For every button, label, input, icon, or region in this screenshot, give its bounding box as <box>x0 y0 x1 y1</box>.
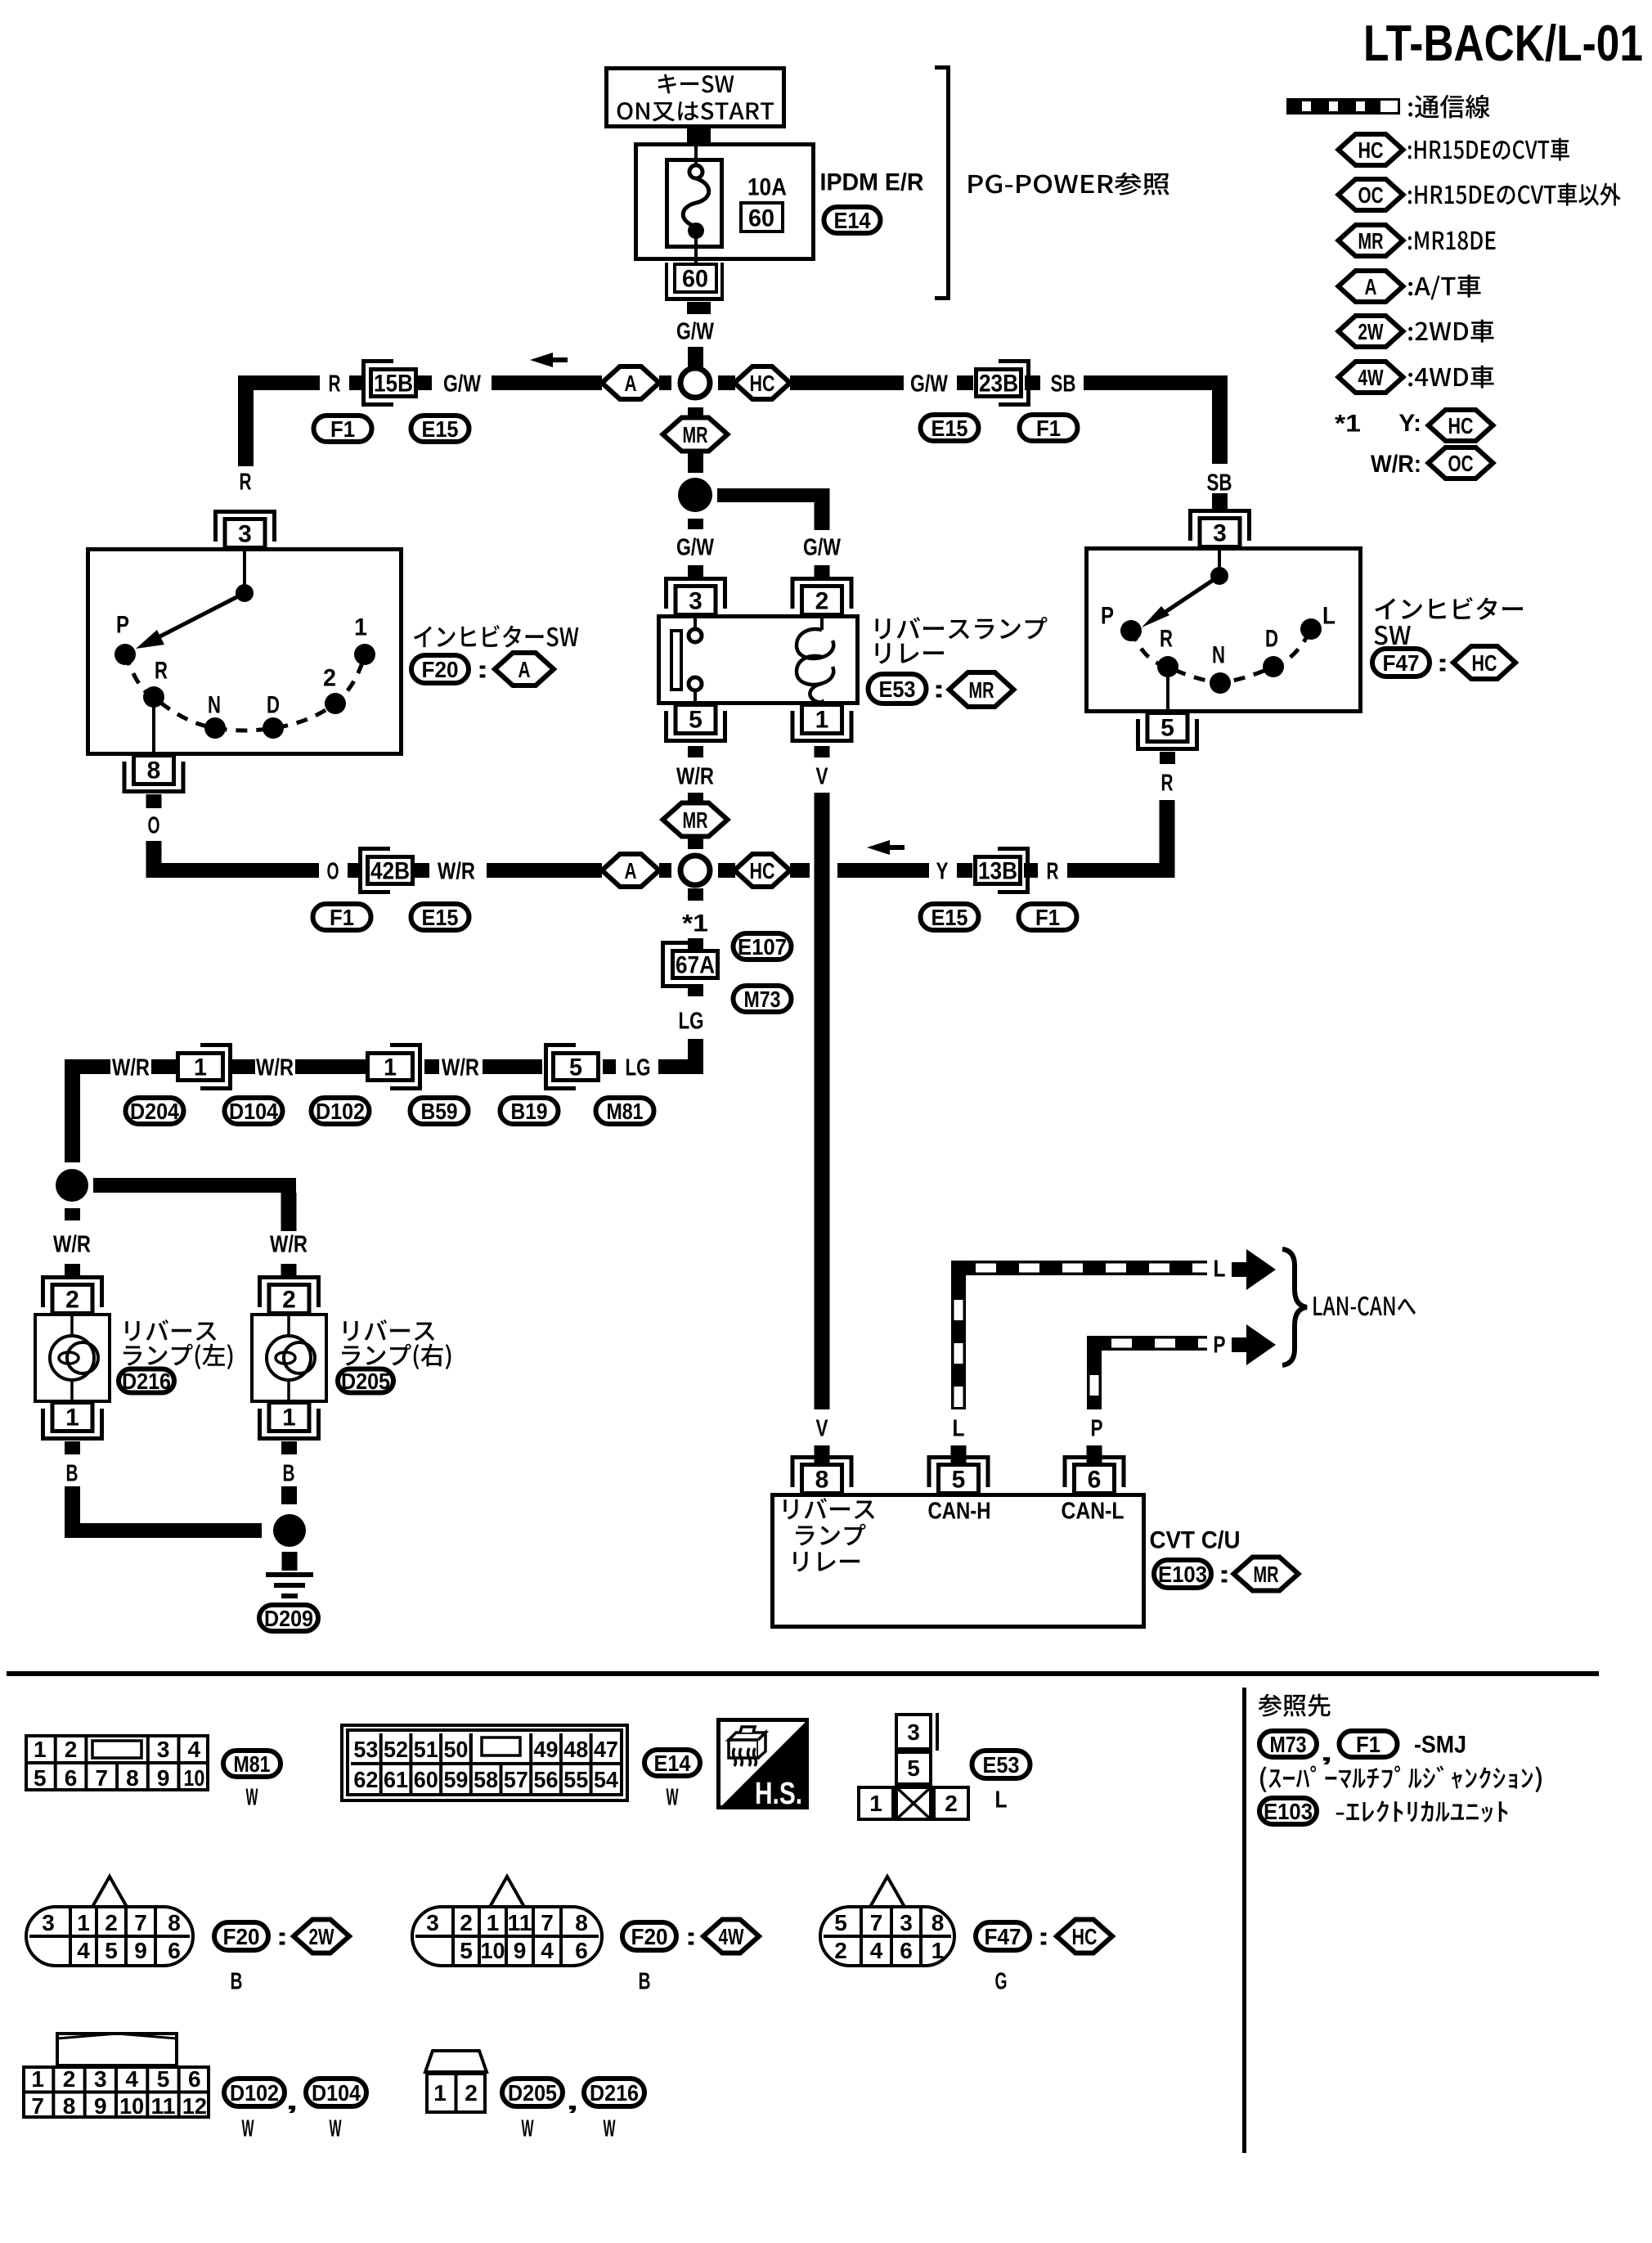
svg-text:1: 1 <box>34 1737 47 1762</box>
svg-text:P: P <box>1214 1332 1226 1358</box>
svg-text:W: W <box>242 2115 254 2142</box>
hexagon MR for relay <box>949 672 1014 707</box>
position dot 2 left SW <box>325 693 346 714</box>
svg-text:R: R <box>240 469 252 495</box>
svg-text:F1: F1 <box>330 905 354 930</box>
svg-text:F20: F20 <box>631 1924 668 1949</box>
legend hexagon OC <box>1339 179 1403 210</box>
connector F1 oval top left <box>314 416 372 442</box>
svg-text:MR: MR <box>683 422 708 447</box>
connector pinout E53 <box>896 1715 931 1749</box>
svg-text:54: 54 <box>594 1767 618 1792</box>
svg-text:5: 5 <box>460 1938 473 1963</box>
svg-text:61: 61 <box>384 1767 408 1792</box>
position dot R right SW <box>1157 656 1178 677</box>
svg-text:G/W: G/W <box>676 318 714 344</box>
svg-text:6: 6 <box>168 1938 181 1963</box>
connector E15 oval top left <box>411 416 469 442</box>
position dot N left SW <box>204 717 226 739</box>
svg-text:9: 9 <box>514 1938 527 1963</box>
connector 23B <box>1026 359 1030 407</box>
svg-text:IPDM E/R: IPDM E/R <box>820 169 924 196</box>
connector E14 oval <box>824 207 881 233</box>
svg-text:4W: 4W <box>1358 365 1384 390</box>
wire R dot to pin 8 left SW <box>152 708 155 756</box>
svg-text:9: 9 <box>134 1938 147 1963</box>
svg-text:R: R <box>1047 858 1059 884</box>
connector E103 oval <box>1154 1560 1211 1588</box>
label リバースランプ(右) <box>343 1319 434 1341</box>
svg-text:D104: D104 <box>312 2080 361 2106</box>
connector E15 oval lower left <box>411 904 469 930</box>
svg-text:4: 4 <box>125 2066 138 2092</box>
svg-text:W/R:: W/R: <box>1371 451 1421 478</box>
svg-text:F1: F1 <box>1356 1732 1380 1757</box>
position dot 1 left SW <box>354 644 375 665</box>
svg-text:9: 9 <box>94 2093 107 2119</box>
svg-text:R: R <box>1160 626 1173 653</box>
svg-text:12: 12 <box>182 2093 207 2119</box>
svg-text:5: 5 <box>1160 715 1174 742</box>
position dot P left SW <box>114 644 136 665</box>
hexagon MR for CVT <box>1234 1558 1299 1591</box>
svg-text:D216: D216 <box>122 1369 171 1394</box>
legend label MR18DE <box>1408 231 1496 250</box>
svg-text:1: 1 <box>282 1405 296 1432</box>
connector pin 1 relay <box>791 739 854 743</box>
svg-text:50: 50 <box>443 1737 468 1762</box>
connector E53 oval pinout <box>972 1751 1030 1778</box>
connector B19 oval <box>501 1098 559 1124</box>
svg-text:,: , <box>1320 1740 1333 1767</box>
svg-text:B19: B19 <box>511 1099 548 1124</box>
connector pin 3 right SW <box>1188 509 1251 513</box>
arrow direction left lower <box>867 840 890 855</box>
svg-text:E15: E15 <box>931 416 968 441</box>
connector D205 oval <box>338 1369 393 1393</box>
svg-text:-SMJ: -SMJ <box>1414 1732 1466 1759</box>
connector M81 oval <box>596 1098 654 1124</box>
svg-text:E107: E107 <box>738 934 787 960</box>
hexagon MR below top bus <box>663 418 728 452</box>
svg-text:MR: MR <box>1254 1562 1279 1587</box>
junction circle lower bus <box>680 856 710 885</box>
svg-text:1: 1 <box>31 2066 44 2092</box>
svg-text:E103: E103 <box>1264 1799 1313 1824</box>
svg-text:M81: M81 <box>607 1099 644 1124</box>
svg-text:W: W <box>604 2115 616 2142</box>
svg-text:OC: OC <box>1448 451 1474 476</box>
svg-text:1: 1 <box>354 614 367 641</box>
svg-text:E15: E15 <box>422 905 459 930</box>
switch arrow to P left SW <box>147 593 245 643</box>
svg-text:O: O <box>327 858 339 884</box>
svg-text:P: P <box>1091 1415 1103 1441</box>
svg-text:F47: F47 <box>985 1924 1021 1949</box>
label 参照先 <box>1258 1694 1330 1717</box>
svg-text:3: 3 <box>42 1910 55 1935</box>
wire W/R chain right segment <box>483 1059 542 1074</box>
legend label 2WD車 <box>1408 320 1493 343</box>
svg-text:F1: F1 <box>1035 905 1060 930</box>
connector pin 2 left lamp <box>41 1275 104 1279</box>
svg-text:Y:: Y: <box>1398 410 1421 437</box>
svg-text:A: A <box>625 858 637 883</box>
wire bus top right segment <box>790 375 904 390</box>
hexagon MR on W/R wire <box>663 803 728 837</box>
svg-text:M81: M81 <box>234 1751 271 1777</box>
svg-text:5: 5 <box>157 2066 170 2092</box>
svg-text:60: 60 <box>682 266 708 293</box>
svg-text:7: 7 <box>541 1910 554 1935</box>
svg-text:4: 4 <box>188 1737 201 1762</box>
svg-text:5: 5 <box>834 1910 847 1935</box>
svg-text:MR: MR <box>969 677 994 703</box>
connector pin 1 left lamp <box>41 1436 104 1441</box>
connector F20 oval 4W <box>622 1922 676 1950</box>
wire LG horizontal corner <box>658 1059 703 1074</box>
position dot P right SW <box>1120 620 1142 641</box>
svg-text:P: P <box>1101 603 1114 630</box>
connector F1 oval top right <box>1020 415 1078 441</box>
connector D102 oval pinout <box>224 2079 285 2106</box>
svg-text:D: D <box>1265 626 1278 653</box>
svg-text:9: 9 <box>157 1765 170 1791</box>
wire below lower junction to 67A <box>688 888 703 901</box>
wire V relay pin1 down <box>815 746 830 757</box>
label PG-POWER参照 <box>968 173 1169 196</box>
connector pinout F20 2W <box>26 1907 193 1966</box>
connector pin 5 right SW <box>1136 747 1199 751</box>
arrow to LAN-CAN P <box>1246 1324 1276 1365</box>
svg-text:1: 1 <box>487 1910 500 1935</box>
arrow to LAN-CAN L <box>1246 1249 1276 1290</box>
svg-text:H.S.: H.S. <box>755 1777 802 1811</box>
svg-text:HC: HC <box>1448 413 1474 438</box>
svg-text:7: 7 <box>134 1910 147 1935</box>
connector 5 SMJ M81 <box>544 1043 548 1090</box>
svg-text:5: 5 <box>105 1938 118 1963</box>
connector D102 oval <box>312 1098 370 1124</box>
svg-text:49: 49 <box>534 1737 559 1762</box>
svg-text:2: 2 <box>945 1791 958 1816</box>
svg-text:8: 8 <box>147 757 161 784</box>
svg-text:4: 4 <box>870 1938 883 1963</box>
label LAN-CANへ <box>1313 1297 1416 1316</box>
svg-text:7: 7 <box>870 1910 883 1935</box>
svg-text:F47: F47 <box>1383 650 1420 676</box>
hexagon HC on lower bus <box>734 854 790 887</box>
wire R right SW down to bus <box>1160 800 1175 878</box>
svg-text:D104: D104 <box>229 1099 278 1124</box>
svg-text:W: W <box>667 1784 679 1810</box>
connector 60 below IPDM <box>665 297 724 301</box>
block IPDM E/R E14 <box>636 145 814 259</box>
svg-text:3: 3 <box>238 521 252 548</box>
legend hexagon 4W <box>1339 362 1403 393</box>
svg-text:M73: M73 <box>744 987 781 1012</box>
svg-text:8: 8 <box>815 1467 829 1494</box>
wire key switch to IPDM <box>687 128 711 142</box>
svg-text:2: 2 <box>63 2066 76 2092</box>
svg-text:M73: M73 <box>1270 1732 1307 1757</box>
svg-text:2: 2 <box>834 1938 847 1963</box>
svg-text:1: 1 <box>815 707 829 734</box>
label スーパーマルチプルジャンクション <box>1260 1765 1542 1792</box>
svg-text:6: 6 <box>1088 1467 1102 1494</box>
svg-text:R: R <box>329 371 341 397</box>
icon H.S. <box>720 1720 807 1808</box>
svg-text:62: 62 <box>353 1767 378 1792</box>
svg-text:23B: 23B <box>979 371 1018 398</box>
svg-text:3: 3 <box>1213 520 1227 547</box>
svg-text:G/W: G/W <box>443 371 481 397</box>
svg-text:MR: MR <box>683 807 708 833</box>
hexagon 4W pinout <box>703 1920 759 1953</box>
dashed arc left SW <box>125 654 365 730</box>
svg-text:56: 56 <box>534 1767 559 1792</box>
position dot L right SW <box>1300 618 1322 640</box>
svg-text:3: 3 <box>94 2066 107 2092</box>
wire W/R relay pin5 down <box>688 746 703 757</box>
legend label 通信線 <box>1408 95 1489 119</box>
svg-text:LG: LG <box>626 1054 651 1081</box>
wire B left lamp to ground <box>65 1486 80 1538</box>
connector pinout D102 D104 <box>57 2034 177 2065</box>
svg-text:B: B <box>66 1460 79 1486</box>
connector pin 8 CVT <box>791 1455 854 1459</box>
svg-text:1: 1 <box>77 1910 90 1935</box>
label リバースランプリレー relay <box>875 617 1047 640</box>
connector E107 oval <box>734 933 792 960</box>
comm line CAN-H L <box>951 1275 966 1409</box>
connector pin 5 CVT <box>927 1455 990 1459</box>
svg-text:OC: OC <box>1358 182 1384 208</box>
svg-text:G/W: G/W <box>676 534 714 560</box>
wire bus top left segment <box>238 375 320 390</box>
legend comm-line sample <box>1286 98 1378 115</box>
svg-text:Y: Y <box>936 858 949 884</box>
svg-text:B: B <box>283 1460 295 1486</box>
label リバースランプリレー in CVT <box>783 1498 874 1519</box>
svg-text:L: L <box>953 1415 965 1441</box>
svg-text::: : <box>276 1924 289 1951</box>
svg-text:6: 6 <box>900 1938 913 1963</box>
svg-text:E53: E53 <box>879 676 916 702</box>
svg-text:10: 10 <box>119 2093 144 2119</box>
arrow direction left <box>530 353 553 367</box>
svg-text:3: 3 <box>689 588 703 615</box>
connector pinout M81 <box>26 1736 208 1790</box>
svg-text:1: 1 <box>194 1054 207 1081</box>
svg-text:6: 6 <box>188 2066 201 2092</box>
svg-text::: : <box>1436 650 1449 677</box>
svg-text:V: V <box>816 1415 829 1441</box>
connector D104 oval <box>225 1098 283 1124</box>
block reverse lamp left D216 <box>35 1315 110 1401</box>
connector F20 oval <box>411 655 469 683</box>
svg-text:G/W: G/W <box>910 371 948 397</box>
svg-text:2: 2 <box>460 1910 473 1935</box>
connector F1 oval lower right <box>1019 904 1077 930</box>
connector pinout D205 D216 <box>425 2051 487 2072</box>
svg-text:5: 5 <box>689 707 703 734</box>
svg-text:E53: E53 <box>983 1752 1020 1778</box>
relay switch element <box>671 631 681 690</box>
connector M73 oval <box>734 986 792 1012</box>
hexagon A for F20 <box>495 653 554 685</box>
connector pin 3 relay <box>664 577 727 581</box>
svg-text::: : <box>1218 1562 1231 1589</box>
fuse 10A 60 inside IPDM <box>667 160 722 247</box>
svg-text:4W: 4W <box>719 1924 744 1949</box>
connector D104 oval pinout <box>306 2079 366 2106</box>
svg-text:L: L <box>1322 603 1336 630</box>
hexagon 2W pinout <box>294 1920 349 1953</box>
label エレクトリカルユニット <box>1336 1800 1508 1823</box>
svg-text:D205: D205 <box>341 1369 390 1394</box>
dashed arc right SW <box>1131 629 1311 683</box>
label インヒビターSW right <box>1375 597 1523 620</box>
svg-text:W: W <box>522 2115 534 2142</box>
svg-text:D102: D102 <box>316 1099 365 1124</box>
svg-text:52: 52 <box>384 1737 408 1762</box>
ground junction dot <box>273 1514 306 1547</box>
svg-text:1: 1 <box>433 2080 447 2106</box>
wire G/W from IPDM to bus <box>687 302 711 314</box>
connector pin 6 CVT <box>1063 1455 1126 1459</box>
svg-text:4: 4 <box>77 1938 90 1963</box>
svg-text:L: L <box>1214 1256 1226 1282</box>
svg-text:LT-BACK/L-01: LT-BACK/L-01 <box>1363 16 1643 72</box>
switch contact left SW <box>243 547 246 586</box>
svg-text:2: 2 <box>323 665 336 692</box>
svg-text:CAN-L: CAN-L <box>1062 1498 1125 1524</box>
svg-text:5: 5 <box>34 1765 47 1791</box>
svg-text:B59: B59 <box>421 1099 458 1124</box>
wire lower bus left corner <box>146 841 162 878</box>
connector F1 oval lower left <box>313 904 371 930</box>
wire R dot to pin 5 right SW <box>1166 677 1169 712</box>
svg-text:8: 8 <box>931 1910 945 1935</box>
hexagon A on top bus <box>602 366 659 399</box>
junction dot lamps <box>56 1169 88 1202</box>
svg-text:F20: F20 <box>422 657 459 682</box>
svg-text:59: 59 <box>443 1767 468 1792</box>
svg-text:A: A <box>1365 274 1377 299</box>
svg-text:7: 7 <box>95 1765 108 1791</box>
svg-text:6: 6 <box>65 1765 78 1791</box>
svg-text:P: P <box>116 612 129 639</box>
position dot N right SW <box>1210 672 1231 694</box>
relay coil element <box>820 618 824 630</box>
connector 13B <box>1026 847 1030 894</box>
connector E53 oval relay <box>869 674 927 703</box>
connector 1 D102/B59 <box>418 1043 422 1090</box>
connector D204 oval <box>126 1098 184 1124</box>
reference M73 F1 -SMJ <box>1259 1731 1317 1757</box>
wire left corner down to lamps <box>65 1059 80 1162</box>
wire W/R chain middle segment <box>295 1059 366 1074</box>
svg-text:W: W <box>246 1784 258 1810</box>
block inhibitor switch F20 <box>88 550 402 754</box>
wire G/W to relay pin 3 <box>688 519 703 529</box>
svg-text::: : <box>476 657 489 684</box>
svg-text:60: 60 <box>748 205 774 232</box>
svg-text:W: W <box>330 2115 342 2142</box>
connector F47 oval <box>1372 649 1430 676</box>
svg-text:D205: D205 <box>508 2080 557 2106</box>
svg-text:3: 3 <box>907 1719 920 1745</box>
block key switch キーSW ON又はSTART <box>607 69 784 127</box>
brace LAN-CAN <box>1282 1249 1307 1365</box>
svg-text:O: O <box>148 812 160 838</box>
svg-text:1: 1 <box>384 1054 397 1081</box>
svg-text:11: 11 <box>151 2093 176 2119</box>
svg-text::: : <box>1037 1924 1050 1951</box>
connector E14 oval pinout <box>644 1750 700 1776</box>
svg-text:CVT C/U: CVT C/U <box>1150 1527 1241 1554</box>
svg-text:55: 55 <box>563 1767 588 1792</box>
svg-text:51: 51 <box>414 1737 438 1762</box>
junction circle top bus <box>680 368 710 398</box>
position dot D left SW <box>263 717 284 739</box>
connector D216 oval <box>119 1369 174 1393</box>
hexagon HC for F47 <box>1453 646 1515 679</box>
svg-text:HC: HC <box>1072 1924 1098 1949</box>
svg-text:V: V <box>816 763 829 789</box>
position dot D right SW <box>1263 656 1284 677</box>
divider line reference section <box>1242 1688 1246 2153</box>
svg-text:SB: SB <box>1051 371 1076 397</box>
connector pin 5 relay <box>664 739 727 743</box>
reference E103 oval <box>1259 1798 1317 1824</box>
connector 42B <box>358 847 362 894</box>
connector E15 oval top right <box>921 415 979 441</box>
svg-text:G/W: G/W <box>803 534 841 560</box>
svg-text:58: 58 <box>474 1767 498 1792</box>
svg-text:MR: MR <box>1358 228 1384 254</box>
junction dot below MR <box>678 478 712 512</box>
svg-text:D216: D216 <box>590 2080 639 2106</box>
svg-text:7: 7 <box>31 2093 44 2119</box>
connector F47 oval pinout <box>976 1922 1030 1950</box>
svg-text:2W: 2W <box>309 1924 334 1949</box>
svg-text:13B: 13B <box>978 858 1017 885</box>
svg-text:E103: E103 <box>1158 1562 1207 1587</box>
svg-text:53: 53 <box>353 1737 378 1762</box>
connector M81 oval pinout <box>223 1751 281 1777</box>
wire G/W below junction circle <box>688 407 703 418</box>
svg-text:3: 3 <box>900 1910 913 1935</box>
svg-text:D: D <box>267 692 280 719</box>
svg-text:*1: *1 <box>682 910 708 937</box>
switch contact right SW <box>1218 546 1221 569</box>
svg-text:2: 2 <box>65 1287 79 1314</box>
hexagon A on lower bus <box>602 854 659 887</box>
svg-text:2: 2 <box>815 588 829 615</box>
svg-text:1: 1 <box>931 1938 945 1963</box>
svg-text:W/R: W/R <box>270 1231 308 1257</box>
svg-text:N: N <box>1212 642 1225 669</box>
svg-text:E14: E14 <box>834 208 871 233</box>
comm line CAN-L P <box>1087 1351 1102 1409</box>
connector pinout E14 <box>342 1725 627 1800</box>
svg-text:3: 3 <box>426 1910 439 1935</box>
svg-text:W/R: W/R <box>256 1054 294 1081</box>
legend label HR15DEのCVT車以外 <box>1408 183 1621 206</box>
connector D205 oval pinout <box>502 2079 563 2106</box>
